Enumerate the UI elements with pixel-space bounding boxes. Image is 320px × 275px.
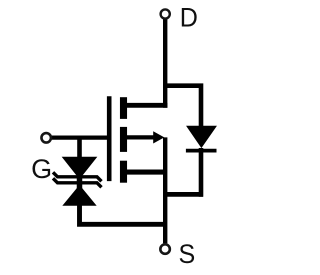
zener Z2 cathode bar with bent ends [53,178,102,187]
terminal S circle [160,244,170,254]
svg-text:S: S [179,238,196,269]
zener Z1 cathode bar with bent ends [53,172,102,181]
wire from body diode cathode to source node [165,192,203,197]
wire zener bottom lead to source node [80,205,166,225]
wire D lead vertical [163,19,167,108]
mosfet Q1 gate vertical bar [107,96,112,181]
body diode D1 cathode bar [186,149,217,153]
mosfet Q1 channel top bar (drain) [120,97,127,119]
zener Z1 triangle pointing down [63,157,96,178]
terminal G circle [41,133,51,143]
svg-text:G: G [31,154,52,184]
zener Z1 top lead from gate wire [77,138,82,158]
body arrow head pointing right [153,131,164,143]
body diode D1 triangle (anode, pointing down) [187,126,216,147]
body diode cathode lead down [199,148,204,197]
zener center connector through bars [77,158,83,206]
mosfet Q1 channel middle bar (body) [120,127,127,152]
svg-text:D: D [180,2,198,33]
wire branch from D lead to body diode anode [164,86,202,127]
zener Z2 triangle pointing up [64,186,96,205]
wire source stub from bottom bar to source vertical [124,170,166,175]
wire drain stub from MOSFET top bar to D lead [123,103,167,108]
wire body connection from middle bar [124,135,155,139]
terminal D circle [161,9,170,18]
mosfet Q1 channel bottom bar (source) [120,161,127,183]
wire gate from G terminal to gate bar [51,135,111,139]
wire source vertical down to S terminal [163,137,167,243]
